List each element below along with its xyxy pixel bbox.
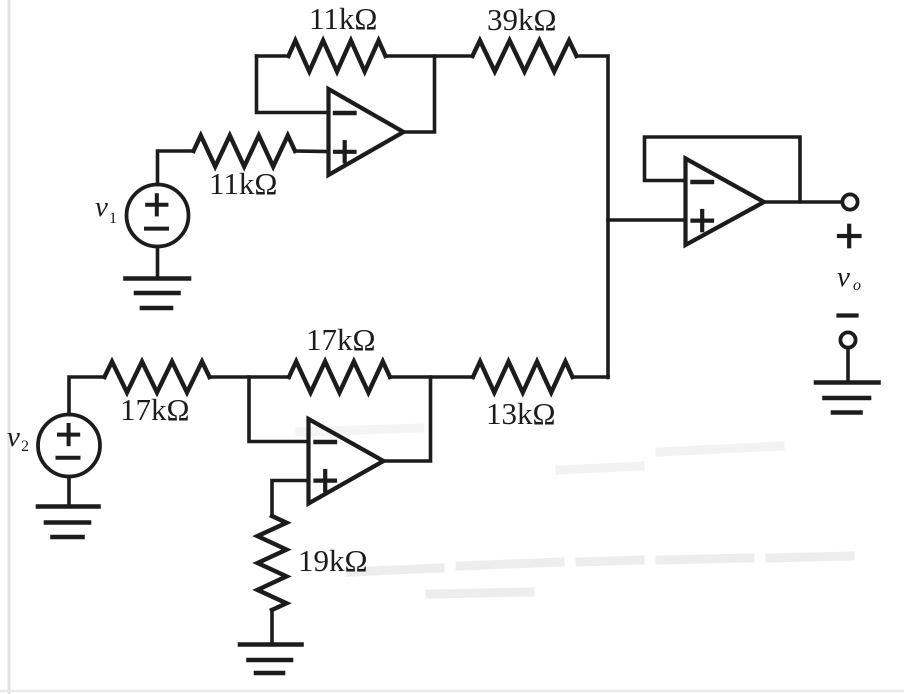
label 13kOhm	[486, 396, 556, 431]
output terminal bottom	[840, 332, 855, 347]
label 19kOhm	[298, 543, 368, 578]
svg-text:2: 2	[21, 438, 29, 455]
wire summing node to U3 plus input	[608, 218, 686, 222]
wire R1 to op-amp U1 plus input	[295, 149, 329, 153]
wire U1 output up to node	[404, 56, 435, 132]
op-amp U3	[686, 159, 765, 246]
wire terminal to ground	[846, 348, 850, 383]
wire R2 to node, node to R3	[386, 54, 473, 58]
wire U1 feedback left branch	[257, 56, 329, 113]
svg-text:v: v	[837, 261, 850, 293]
label v2	[7, 421, 29, 455]
resistor R7 19kOhm	[258, 516, 287, 610]
label 17kOhm input	[120, 392, 190, 427]
ground under V2	[38, 507, 99, 538]
svg-text:1: 1	[109, 210, 117, 227]
wire U2 output up to node B	[384, 377, 431, 461]
wire U3 feedback loop	[645, 137, 801, 202]
svg-text:19kΩ: 19kΩ	[298, 543, 368, 578]
label - output	[839, 313, 857, 317]
wire R6 to summing node vertical	[573, 375, 609, 379]
label 39kOhm	[487, 2, 557, 37]
voltage source V2	[38, 415, 100, 477]
resistor R1 11kOhm input	[194, 136, 296, 167]
wire V2 bottom to ground	[67, 477, 71, 507]
label vo	[837, 261, 861, 294]
svg-text:39kΩ: 39kΩ	[487, 2, 557, 37]
svg-text:17kΩ: 17kΩ	[120, 392, 190, 427]
svg-text:13kΩ: 13kΩ	[486, 396, 556, 431]
resistor R4 17kOhm input	[105, 362, 210, 393]
wire top-left to feedback resistor	[257, 54, 289, 58]
wire V1 top to plus-input line	[158, 151, 194, 185]
scan gutter shading	[8, 0, 11, 694]
wire V2 top to bottom rail	[69, 377, 105, 415]
svg-text:v: v	[95, 191, 108, 223]
wire U3 output	[764, 200, 842, 204]
label + output	[839, 226, 860, 246]
op-amp U2	[309, 419, 384, 504]
wire R5 to node B	[390, 375, 473, 379]
wire U2 plus input from R7	[272, 481, 309, 517]
label v1	[95, 191, 117, 227]
resistor R5 17kOhm feedback	[289, 362, 390, 393]
wire node A down to U2 minus input	[249, 377, 309, 442]
wire R7 to ground	[270, 610, 274, 645]
output terminal top	[842, 194, 857, 209]
wire R3 to summing node vertical	[577, 56, 609, 378]
svg-text:11kΩ: 11kΩ	[209, 166, 277, 201]
ground under V1	[126, 279, 190, 309]
resistor R6 13kOhm	[473, 362, 573, 393]
label 11kOhm feedback	[309, 1, 377, 36]
voltage source V1	[127, 185, 189, 247]
wire V1 bottom to ground	[156, 247, 160, 279]
label 17kOhm feedback	[306, 322, 376, 357]
ground at output	[816, 383, 879, 413]
svg-text:o: o	[853, 277, 861, 294]
label 11kOhm input	[209, 166, 277, 201]
svg-text:17kΩ: 17kΩ	[306, 322, 376, 357]
svg-text:v: v	[7, 421, 20, 453]
resistor R3 39kOhm	[473, 41, 577, 72]
resistor R2 11kOhm feedback	[289, 41, 386, 72]
op-amp U1	[329, 89, 404, 175]
wire R4 to node A	[210, 375, 290, 379]
svg-text:11kΩ: 11kΩ	[309, 1, 377, 36]
ground under R7	[240, 645, 302, 674]
